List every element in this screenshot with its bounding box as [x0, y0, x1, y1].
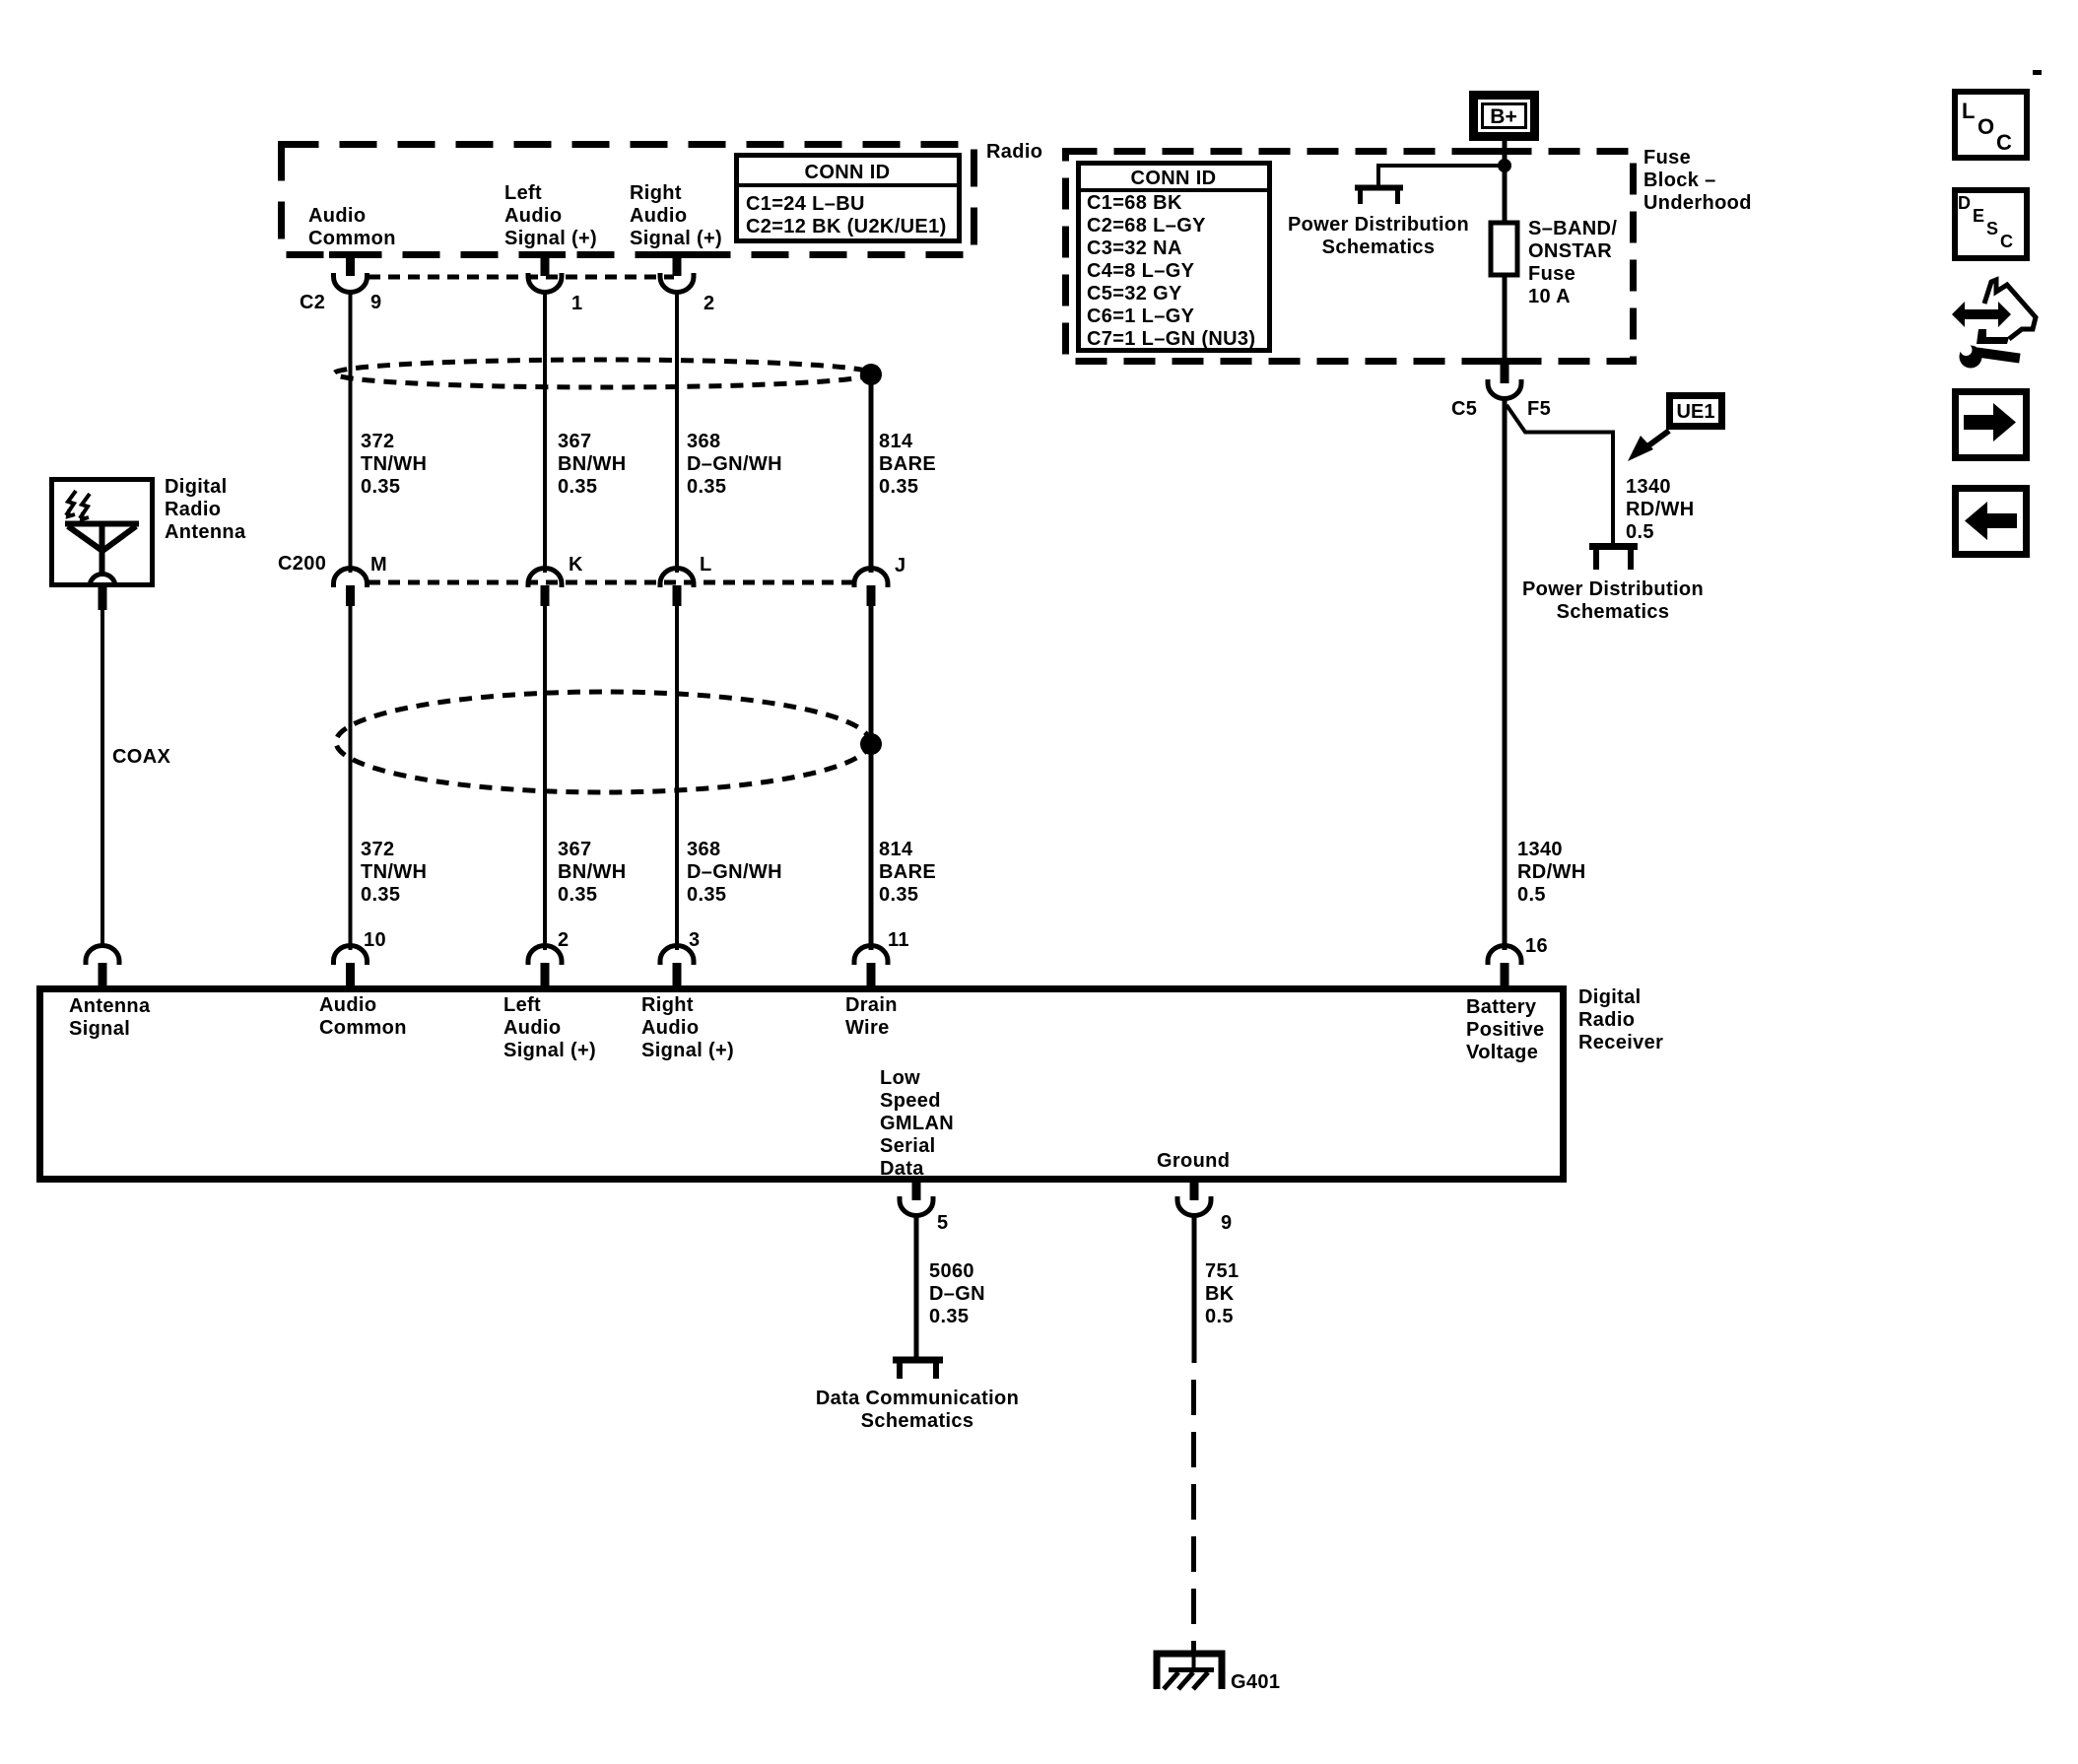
svg-text:M: M: [370, 554, 387, 576]
diagnostic icon outline: [1984, 280, 2036, 339]
connector C2 pin 1: [528, 254, 562, 293]
wire B+ to fuse: [1503, 141, 1508, 223]
wire 814 BARE upper: [869, 374, 874, 573]
svg-text:Radio: Radio: [986, 141, 1042, 163]
receiver label: [1578, 986, 1663, 1053]
connector C2 dashed gang line: [369, 275, 674, 280]
svg-text:Schematics: Schematics: [1322, 237, 1436, 258]
connector C200 pin M: [334, 568, 368, 606]
fuse label: [1528, 218, 1617, 307]
svg-text:Radio: Radio: [1578, 1009, 1635, 1031]
shield ellipse lower: [336, 692, 870, 792]
ground G401: [1157, 1654, 1222, 1689]
wire to power distribution: [1378, 166, 1505, 186]
svg-text:Digital: Digital: [165, 476, 228, 498]
svg-text:Block –: Block –: [1643, 170, 1716, 191]
svg-text:D–GN: D–GN: [929, 1283, 985, 1305]
connector C2 pin 9: [334, 254, 368, 293]
svg-text:Fuse: Fuse: [1643, 147, 1691, 169]
svg-text:CONN ID: CONN ID: [1131, 168, 1217, 189]
wire label 368 upper: [687, 431, 782, 498]
svg-text:Battery: Battery: [1466, 996, 1537, 1018]
wire 751 BK solid: [1192, 1215, 1197, 1363]
wire 368 D-GN/WH upper: [675, 292, 679, 573]
svg-text:L: L: [700, 554, 712, 576]
wire label 372 lower: [361, 839, 427, 906]
diagnostic icon wrench: [1960, 344, 2021, 369]
off-page pointer power distribution right: [1589, 543, 1638, 570]
svg-text:Audio: Audio: [641, 1017, 699, 1039]
off-page pointer data communication: [893, 1357, 943, 1379]
svg-text:F5: F5: [1527, 398, 1551, 420]
svg-text:Fuse: Fuse: [1528, 263, 1575, 285]
svg-text:Voltage: Voltage: [1466, 1042, 1538, 1063]
wire label 5060: [929, 1260, 985, 1327]
svg-text:Wire: Wire: [845, 1017, 890, 1039]
svg-text:0.35: 0.35: [687, 884, 726, 906]
svg-text:Power Distribution: Power Distribution: [1288, 214, 1469, 236]
svg-text:Audio: Audio: [630, 205, 687, 227]
connector receiver pin 9: [1177, 1179, 1211, 1216]
svg-text:BARE: BARE: [879, 861, 936, 883]
svg-text:0.35: 0.35: [558, 884, 597, 906]
branch wire F5 to UE1 circuit: [1507, 405, 1613, 545]
svg-text:GMLAN: GMLAN: [880, 1113, 954, 1134]
connector receiver pin 10: [334, 946, 368, 986]
receiver pin label Battery Positive Voltage: [1466, 996, 1545, 1063]
svg-text:UE1: UE1: [1677, 401, 1715, 423]
svg-text:0.35: 0.35: [558, 476, 597, 498]
svg-text:O: O: [1977, 114, 1994, 139]
svg-text:0.35: 0.35: [361, 476, 400, 498]
antenna symbol: [65, 491, 139, 586]
wire label 372 upper: [361, 431, 427, 498]
svg-text:BARE: BARE: [879, 453, 936, 475]
svg-text:751: 751: [1205, 1260, 1239, 1282]
wire 372 TN/WH lower: [349, 606, 353, 950]
svg-text:S: S: [1986, 219, 1998, 238]
svg-text:Antenna: Antenna: [165, 521, 246, 543]
svg-text:BN/WH: BN/WH: [558, 861, 627, 883]
svg-text:C3=32 NA: C3=32 NA: [1087, 237, 1182, 259]
junction dot B+: [1498, 159, 1511, 172]
wire battery main: [1503, 398, 1508, 950]
receiver pin label Drain Wire: [845, 994, 898, 1039]
connector receiver pin 16: [1488, 946, 1521, 986]
svg-text:Data: Data: [880, 1158, 924, 1180]
fuse block label: [1643, 147, 1752, 214]
svg-text:C: C: [2000, 232, 2013, 251]
svg-text:E: E: [1973, 206, 1984, 226]
svg-text:5060: 5060: [929, 1260, 974, 1282]
fuse S-BAND/ONSTAR: [1491, 223, 1517, 275]
svg-text:368: 368: [687, 839, 720, 860]
svg-text:Audio: Audio: [319, 994, 376, 1016]
svg-text:B+: B+: [1490, 105, 1516, 128]
antenna pin stub: [99, 585, 107, 610]
svg-text:Schematics: Schematics: [1557, 601, 1670, 623]
svg-text:COAX: COAX: [112, 746, 170, 768]
svg-text:Antenna: Antenna: [69, 995, 151, 1017]
svg-text:Right: Right: [630, 182, 682, 204]
wire label 1340 main: [1517, 839, 1586, 906]
forward arrow icon box: [1956, 392, 2027, 458]
diagnostic icon base bar: [1977, 329, 2009, 344]
off-page pointer power distribution top: [1355, 185, 1403, 204]
connector C5 F5: [1488, 362, 1521, 398]
receiver pin label Low Speed GMLAN Serial Data: [880, 1067, 954, 1180]
radio pin label Audio Common: [308, 205, 396, 249]
svg-text:C1=68 BK: C1=68 BK: [1087, 192, 1182, 214]
svg-text:Signal (+): Signal (+): [504, 228, 597, 249]
svg-text:Underhood: Underhood: [1643, 192, 1752, 214]
svg-text:Serial: Serial: [880, 1135, 936, 1157]
svg-text:C2: C2: [300, 292, 325, 313]
B+ power symbol: [1474, 96, 1535, 137]
radio pin label Right Audio Signal: [630, 182, 722, 249]
svg-text:1: 1: [571, 293, 582, 314]
radio conn id table: [736, 156, 960, 241]
svg-text:RD/WH: RD/WH: [1626, 499, 1695, 520]
svg-text:RD/WH: RD/WH: [1517, 861, 1586, 883]
back arrow icon box: [1956, 489, 2027, 555]
svg-text:Signal: Signal: [69, 1018, 130, 1040]
svg-text:C200: C200: [278, 553, 326, 575]
svg-text:Signal (+): Signal (+): [630, 228, 722, 249]
svg-text:0.5: 0.5: [1205, 1306, 1234, 1327]
svg-text:367: 367: [558, 431, 591, 452]
receiver pin label Antenna Signal: [69, 995, 151, 1040]
svg-text:10 A: 10 A: [1528, 286, 1571, 307]
wire coax: [101, 610, 104, 948]
connector C200 pin L: [660, 568, 694, 606]
svg-text:Speed: Speed: [880, 1090, 941, 1112]
receiver pin label Right Audio Signal: [641, 994, 734, 1061]
svg-text:C5=32 GY: C5=32 GY: [1087, 283, 1182, 305]
svg-text:1340: 1340: [1626, 476, 1671, 498]
svg-text:814: 814: [879, 431, 913, 452]
svg-text:367: 367: [558, 839, 591, 860]
svg-text:372: 372: [361, 431, 394, 452]
svg-text:372: 372: [361, 839, 394, 860]
corner tick mark: [2033, 70, 2042, 75]
digital radio receiver box: [40, 989, 1564, 1180]
fuse block edge dash covers: [1476, 148, 1531, 365]
svg-text:Data Communication: Data Communication: [816, 1388, 1019, 1409]
wire label 814 lower: [879, 839, 936, 906]
svg-text:11: 11: [888, 929, 909, 951]
svg-text:G401: G401: [1231, 1671, 1280, 1693]
wire label 368 lower: [687, 839, 782, 906]
diagnostic icon arrow: [1952, 302, 2011, 327]
svg-text:D–GN/WH: D–GN/WH: [687, 861, 782, 883]
connector receiver pin 11: [854, 946, 888, 986]
svg-text:0.5: 0.5: [1517, 884, 1546, 906]
svg-text:C4=8 L–GY: C4=8 L–GY: [1087, 260, 1195, 282]
wire label 814 upper: [879, 431, 936, 498]
junction dot shield upper: [860, 364, 882, 385]
svg-text:0.35: 0.35: [929, 1306, 969, 1327]
svg-text:Positive: Positive: [1466, 1019, 1545, 1041]
svg-text:TN/WH: TN/WH: [361, 453, 427, 475]
svg-text:0.5: 0.5: [1626, 521, 1654, 543]
fuse block underhood dashed box: [1066, 152, 1634, 362]
svg-text:Audio: Audio: [308, 205, 366, 227]
UE1 box: [1670, 396, 1722, 427]
wire 368 D-GN/WH lower: [675, 606, 679, 950]
power distribution label right: [1522, 578, 1704, 623]
connector at receiver antenna pin: [86, 946, 119, 986]
svg-text:Power Distribution: Power Distribution: [1522, 578, 1704, 600]
svg-text:Ground: Ground: [1157, 1150, 1230, 1172]
svg-text:L: L: [1962, 99, 1975, 123]
radio dashed box: [282, 145, 974, 255]
svg-text:5: 5: [937, 1212, 948, 1234]
svg-text:D: D: [1958, 193, 1971, 213]
LOC icon box: [1955, 92, 2027, 158]
connector C200 dashed gang line: [369, 580, 853, 585]
svg-text:C6=1 L–GY: C6=1 L–GY: [1087, 305, 1195, 327]
svg-text:Audio: Audio: [503, 1017, 561, 1039]
svg-text:Schematics: Schematics: [861, 1410, 974, 1432]
wire 372 TN/WH upper: [349, 292, 353, 573]
svg-text:0.35: 0.35: [879, 884, 918, 906]
radio box edge dash covers: [329, 251, 698, 258]
power distribution label top: [1288, 214, 1469, 258]
svg-text:Drain: Drain: [845, 994, 898, 1016]
svg-text:Audio: Audio: [504, 205, 562, 227]
svg-text:J: J: [895, 555, 905, 577]
svg-text:Right: Right: [641, 994, 694, 1016]
svg-text:3: 3: [689, 929, 700, 951]
svg-text:Left: Left: [504, 182, 542, 204]
radio pin label Left Audio Signal: [504, 182, 597, 249]
UE1 arrow: [1628, 431, 1669, 461]
wire label 751: [1205, 1260, 1239, 1327]
svg-text:C7=1 L–GN (NU3): C7=1 L–GN (NU3): [1087, 328, 1255, 350]
svg-text:Signal (+): Signal (+): [503, 1040, 596, 1061]
wire 751 BK dashed: [1191, 1380, 1196, 1654]
svg-text:Low: Low: [880, 1067, 920, 1089]
svg-text:814: 814: [879, 839, 913, 860]
svg-text:Left: Left: [503, 994, 541, 1016]
svg-text:16: 16: [1525, 935, 1548, 957]
svg-text:C2=68 L–GY: C2=68 L–GY: [1087, 215, 1206, 237]
svg-text:ONSTAR: ONSTAR: [1528, 240, 1612, 262]
wire 814 BARE lower: [869, 606, 874, 950]
wire label 367 lower: [558, 839, 627, 906]
digital radio antenna box: [52, 480, 153, 585]
DESC icon box: [1955, 190, 2027, 258]
connector C2 pin 2: [660, 254, 694, 293]
wire fuse to C5: [1503, 275, 1508, 365]
svg-text:0.35: 0.35: [879, 476, 918, 498]
svg-text:9: 9: [1221, 1212, 1232, 1234]
svg-text:10: 10: [364, 929, 386, 951]
svg-text:2: 2: [558, 929, 569, 951]
connector C200 pin K: [528, 568, 562, 606]
svg-text:K: K: [569, 554, 583, 576]
svg-text:0.35: 0.35: [687, 476, 726, 498]
antenna label: [165, 476, 246, 543]
svg-text:Common: Common: [308, 228, 396, 249]
svg-text:C: C: [1996, 130, 2012, 155]
svg-text:Radio: Radio: [165, 499, 221, 520]
wire 367 BN/WH lower: [543, 606, 547, 950]
svg-text:S–BAND/: S–BAND/: [1528, 218, 1617, 239]
junction dot shield lower: [860, 733, 882, 755]
svg-text:Digital: Digital: [1578, 986, 1642, 1008]
receiver pin label Audio Common: [319, 994, 407, 1039]
svg-text:0.35: 0.35: [361, 884, 400, 906]
svg-text:C2=12 BK (U2K/UE1): C2=12 BK (U2K/UE1): [746, 216, 947, 237]
wire label 367 upper: [558, 431, 627, 498]
svg-text:BK: BK: [1205, 1283, 1235, 1305]
receiver pin label Left Audio Signal: [503, 994, 596, 1061]
wire 367 BN/WH upper: [543, 292, 547, 573]
svg-text:Receiver: Receiver: [1578, 1032, 1663, 1053]
svg-text:1340: 1340: [1517, 839, 1563, 860]
svg-text:Signal (+): Signal (+): [641, 1040, 734, 1061]
svg-text:2: 2: [704, 293, 714, 314]
connector C200 pin J: [854, 568, 888, 606]
svg-text:368: 368: [687, 431, 720, 452]
data communication label: [816, 1388, 1019, 1432]
svg-text:9: 9: [370, 292, 381, 313]
wire 5060 D-GN: [914, 1215, 919, 1359]
connector receiver pin 5: [900, 1179, 933, 1216]
fuse block conn id table: [1078, 164, 1270, 351]
svg-text:BN/WH: BN/WH: [558, 453, 627, 475]
svg-text:TN/WH: TN/WH: [361, 861, 427, 883]
connector receiver pin 3: [660, 946, 694, 986]
svg-text:D–GN/WH: D–GN/WH: [687, 453, 782, 475]
shield ellipse upper: [334, 360, 872, 387]
svg-text:C1=24 L–BU: C1=24 L–BU: [746, 193, 865, 215]
svg-text:Common: Common: [319, 1017, 407, 1039]
wire label 1340 branch: [1626, 476, 1695, 543]
svg-text:CONN ID: CONN ID: [805, 162, 891, 183]
svg-text:C5: C5: [1451, 398, 1477, 420]
connector receiver pin 2: [528, 946, 562, 986]
